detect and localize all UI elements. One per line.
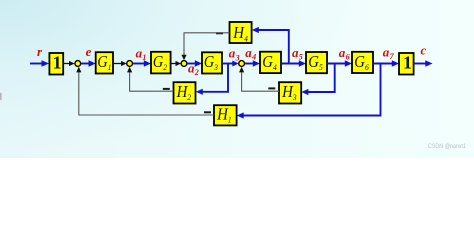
- wire sum1 to G1: [81, 63, 90, 65]
- minus sign H2: [163, 88, 170, 90]
- wire sum3 to G3: [187, 63, 197, 65]
- block G2: [151, 52, 171, 74]
- block H1: [214, 105, 237, 125]
- summing junction S4: [239, 61, 245, 67]
- block G6: [352, 52, 373, 73]
- block 1 (output): [399, 53, 414, 75]
- block G5: [306, 52, 327, 73]
- summing junction S3: [181, 61, 187, 67]
- block G3: [202, 52, 222, 73]
- minus sign H3: [268, 87, 275, 89]
- wire G4 to G5 (node a5 takeoff): [281, 63, 301, 65]
- wire a7 takeoff down to H1: [242, 64, 381, 116]
- block H4: [230, 22, 252, 43]
- wire G2 to sum3: [171, 63, 177, 65]
- wire block1 to sum1: [63, 63, 70, 65]
- wire H4 output to sum3: [184, 33, 230, 56]
- wire H1 output to sum1: [79, 71, 214, 115]
- svg-text:e: e: [86, 44, 92, 59]
- edge artifact: [0, 93, 2, 100]
- wire H2 input from a3 takeoff: [201, 64, 228, 92]
- wire G3 to sum4 (node a3 takeoff): [222, 63, 234, 65]
- block H2: [174, 82, 196, 103]
- summing junction S1: [75, 61, 81, 67]
- svg-text:1: 1: [53, 52, 62, 72]
- wire a6 takeoff down to H3: [307, 64, 335, 93]
- summing junction S2: [127, 61, 133, 67]
- wire a5 takeoff up to H4: [257, 30, 289, 64]
- wire sum4 to G4: [245, 63, 255, 65]
- block G1: [96, 52, 113, 73]
- wire output c: [414, 63, 426, 65]
- svg-text:CSDN @nanxt1: CSDN @nanxt1: [428, 143, 466, 150]
- minus sign H1: [204, 111, 211, 113]
- wire H3 output to sum4: [242, 71, 279, 91]
- svg-text:1: 1: [403, 52, 412, 72]
- minus sign H4: [216, 32, 223, 34]
- wire H2 output to sum2: [130, 71, 174, 91]
- wire sum2 to G2: [133, 63, 146, 65]
- block H3: [279, 82, 301, 103]
- svg-text:c: c: [421, 42, 427, 57]
- wire G1 to sum2: [113, 63, 122, 65]
- wire G5 to G6 (node a6 takeoff): [327, 63, 347, 65]
- block 1 (input): [49, 53, 63, 75]
- wire G6 to output block (node a7 takeoff): [373, 63, 394, 65]
- block G4: [260, 52, 281, 73]
- wire r input: [30, 63, 43, 65]
